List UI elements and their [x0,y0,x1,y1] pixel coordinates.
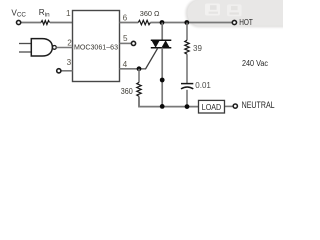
Vcc terminal [17,20,21,24]
LOAD box [199,100,225,113]
triac Q1 [151,40,172,48]
svg-text:NEUTRAL: NEUTRAL [242,99,275,110]
resistor Rin [41,21,50,25]
svg-text:1: 1 [66,9,71,18]
svg-text:VCC: VCC [11,8,26,18]
optocoupler U1 box [73,11,120,82]
svg-text:360 Ω: 360 Ω [140,9,160,18]
capacitor 0.01 [181,84,193,89]
resistor 360 ohm [138,20,150,24]
svg-text:HOT: HOT [239,18,253,27]
wire LOAD to NEUTRAL [225,105,234,107]
NAND gate input wires [19,43,31,45]
gate wire diagonal [139,48,158,69]
svg-text:39: 39 [193,44,202,53]
svg-text:5: 5 [123,34,128,43]
svg-text:0.01: 0.01 [195,81,211,90]
pin 5 terminal [131,41,135,45]
pin 3 terminal [57,69,61,73]
toolbar icon save [205,4,220,16]
wire NAND output to pin 2 [56,47,72,49]
snubber branch wire upper [186,23,188,41]
wire Rin to pin 1 [50,22,73,24]
NAND output bubble [53,46,57,50]
NEUTRAL terminal [233,104,237,108]
HOT terminal [232,20,236,24]
wire to HOT [150,22,232,24]
pin 6 wire [120,22,139,24]
resistor 39 [185,40,189,54]
svg-text:240 Vac: 240 Vac [242,58,269,68]
triac MT2 stub [161,23,163,41]
node junction bottom MT1 [160,104,165,109]
svg-text:360: 360 [121,87,133,96]
svg-text:MOC3061–63: MOC3061–63 [74,43,118,52]
NAND gate [31,39,52,56]
svg-text:4: 4 [123,60,128,69]
toolbar icon print [227,4,242,16]
toolbar overlay background [186,0,300,27]
pin 4 wire [120,68,146,70]
triac MT1 wire [161,48,163,107]
svg-text:Rin: Rin [39,8,50,18]
resistor 360 gate [137,82,141,96]
wire Vcc to Rin [21,22,41,24]
svg-text:2: 2 [67,38,72,47]
snubber wire middle [186,54,188,83]
pin 3 wire [61,70,73,72]
svg-text:3: 3 [67,58,72,67]
snubber wire lower [186,90,188,107]
node junction MT1 [160,78,165,83]
bottom rail [139,97,199,107]
svg-text:6: 6 [123,14,128,23]
node junction bottom snubber [185,104,190,109]
svg-text:LOAD: LOAD [202,102,221,112]
gate resistor branch wire upper [138,69,140,83]
node junction top snubber [184,20,189,25]
node junction top triac [160,20,165,25]
pin 5 wire [120,42,132,44]
gate resistor branch wire lower [138,96,140,106]
node junction gate [137,66,142,71]
